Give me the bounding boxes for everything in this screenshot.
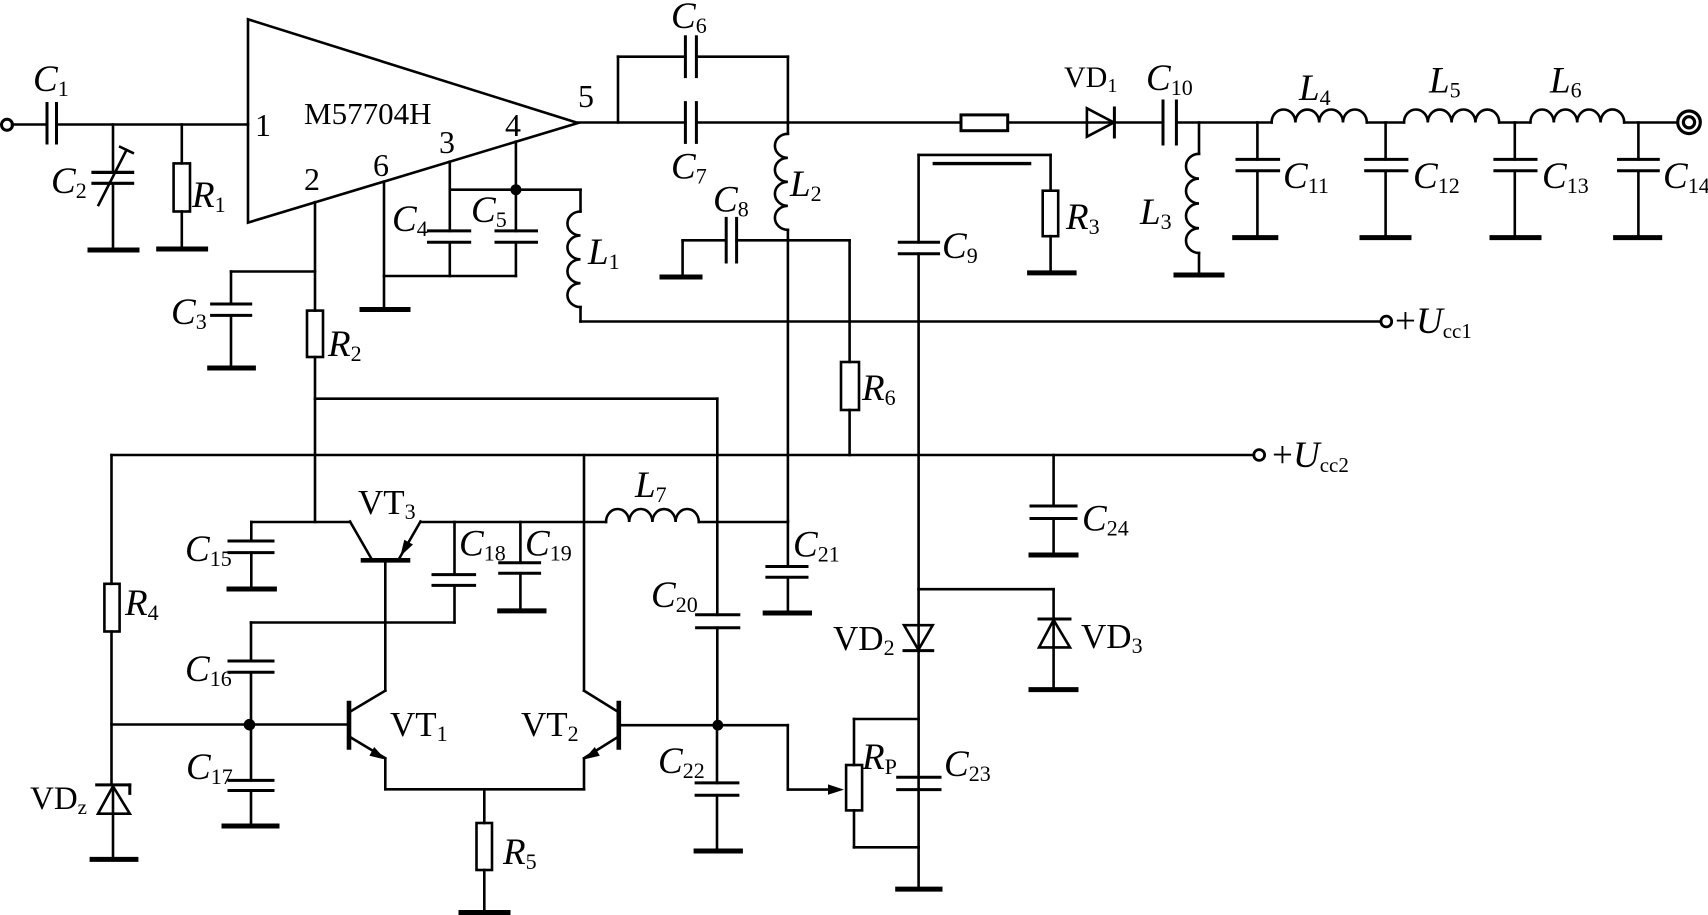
wire C6 branch right vertical (787, 57, 790, 123)
ground (C11) (1235, 235, 1276, 240)
wire emitter rail (385, 788, 584, 791)
ground (C19) (500, 608, 544, 613)
capacitor C24 (1031, 455, 1129, 555)
ground (R1) (159, 247, 206, 252)
wire C6 branch left vertical (617, 57, 620, 123)
capacitor C4 (392, 199, 470, 276)
wire base rail VT1 (112, 723, 347, 726)
transistor VT3 (350, 483, 421, 690)
capacitor C5 (471, 190, 537, 276)
resistor R6 (841, 362, 896, 455)
wire VD2/VD3 tee (919, 588, 1054, 591)
ground (VDz) (92, 857, 136, 862)
input terminal (2, 119, 13, 130)
wire coupler to C9 (917, 155, 920, 242)
resistor R5 (477, 789, 537, 912)
node (VT2 base / C20 / C22) (712, 720, 723, 731)
wire C6 branch top left (618, 55, 685, 58)
wire VT2 base to node (621, 724, 718, 727)
ground (C14) (1616, 235, 1660, 240)
ground (C13) (1492, 235, 1539, 240)
ground (R3) (1030, 270, 1075, 275)
capacitor C14 (1619, 123, 1708, 238)
capacitor C1 (33, 59, 69, 143)
svg-text:2: 2 (304, 161, 320, 197)
wire C3 to pin2 (231, 270, 315, 273)
ground (C24) (1031, 553, 1076, 558)
svg-text:5: 5 (578, 78, 594, 114)
diode VD2 (833, 589, 933, 660)
output terminal (1678, 111, 1701, 134)
wire pin3 down (448, 162, 451, 231)
ground (L3) (1176, 273, 1222, 278)
ground (C2) (90, 248, 137, 253)
capacitor C15 (185, 522, 273, 589)
node (pin4 junction) (510, 184, 521, 195)
svg-text:4: 4 (505, 107, 521, 143)
svg-text:M57704H: M57704H (304, 96, 431, 131)
inductor L1 (567, 190, 619, 322)
wire R2 bottom to C20 branch (315, 397, 717, 400)
resistor R2 (307, 311, 362, 522)
op-amp U1 M57704H triangle (248, 19, 578, 222)
capacitor C2 (variable) (51, 125, 133, 251)
ground (C21) (765, 611, 809, 616)
ground (C12) (1362, 235, 1409, 240)
wire C20 branch vertical upper (716, 399, 719, 615)
capacitor C21 (767, 521, 840, 613)
wire VD1 to C10 (1114, 121, 1163, 124)
svg-text:+: + (1395, 301, 1416, 342)
wire L4 to C12 (1367, 121, 1404, 124)
wire VT2 collector up (583, 455, 586, 690)
wire pin4 down (515, 142, 518, 231)
wire R6 top (848, 240, 851, 362)
wire L5 to C13 (1499, 121, 1530, 124)
node (C16/C17 junction) (244, 719, 256, 731)
capacitor C22 (658, 725, 738, 851)
inductor L6 (1530, 61, 1624, 123)
wire pin3/pin4 node (450, 188, 581, 191)
capacitor C16 (185, 623, 273, 725)
wire L2/C21 vertical (787, 240, 790, 521)
svg-text:3: 3 (439, 124, 455, 160)
wire C7 to box (696, 121, 961, 124)
wire coupler to R3 (1049, 155, 1052, 191)
wire VT3 emitter rail to L7 (421, 521, 607, 524)
transistor VT1 (349, 691, 448, 790)
ground (C15) (229, 587, 274, 592)
wire box to VD1 (1008, 121, 1115, 124)
terminal +Ucc1 (1381, 301, 1472, 343)
ground (C22) (696, 849, 740, 854)
inductor L7 (606, 465, 788, 522)
capacitor C10 (1146, 58, 1193, 144)
capacitor C11 (1237, 123, 1329, 238)
inductor L3 (1139, 123, 1199, 276)
wire pin2 down (314, 202, 317, 310)
ground (C23) (898, 887, 940, 892)
diode VD3 (1039, 589, 1143, 689)
wire node to Rp wiper (718, 725, 844, 795)
wire C6 branch top right (696, 55, 788, 58)
ground (C3) (210, 366, 254, 371)
inductor L2 (775, 123, 822, 241)
capacitor C13 (1495, 123, 1589, 238)
zener diode VDz (30, 781, 130, 859)
Ucc1 rail (581, 320, 1381, 323)
ground (pin 6) (362, 307, 408, 312)
svg-text:+: + (1272, 435, 1293, 476)
wire VD2 to C23 (917, 651, 920, 890)
wire C15 top rail (251, 521, 350, 524)
ground (C17) (224, 824, 277, 829)
wire C16 top rail (251, 621, 455, 624)
resistor R1 (174, 125, 226, 250)
svg-text:1: 1 (255, 107, 271, 143)
resistor R3 (1043, 191, 1100, 273)
wire C4/C5 bottoms to pin6 line (384, 275, 516, 278)
wire pin6 down to ground (383, 182, 386, 310)
capacitor C3 (171, 272, 251, 369)
wire L2 bottom to R6 (788, 239, 850, 242)
coupler bar (934, 162, 1029, 165)
wire C1 to pin1 (57, 123, 249, 126)
coupler line (919, 154, 1051, 157)
capacitor C8 (683, 180, 788, 278)
ground (C8) (662, 275, 700, 280)
capacitor C9 (899, 226, 977, 589)
capacitor C12 (1366, 123, 1460, 238)
resistor R4 (104, 583, 158, 785)
box on main line (microstrip) (961, 115, 1008, 131)
inductor L5 (1404, 61, 1499, 123)
capacitor C20 (651, 575, 739, 725)
wire apex to C7 (578, 121, 685, 124)
capacitor C7 (671, 103, 707, 189)
wire R4 branch (110, 455, 113, 584)
Ucc2 rail (112, 454, 1254, 457)
wire C10 to L4 (1176, 121, 1271, 124)
diode VD1 (1064, 61, 1117, 137)
potentiometer Rp (846, 719, 919, 847)
capacitor C18 (433, 522, 506, 623)
ground (VD3) (1031, 687, 1076, 692)
capacitor C19 (500, 522, 572, 611)
wire input to C1 (12, 123, 47, 126)
transistor VT2 (521, 691, 619, 790)
capacitor C17 (186, 725, 273, 827)
capacitor C6 (671, 0, 707, 77)
svg-text:6: 6 (373, 147, 389, 183)
capacitor C23 (898, 744, 991, 790)
terminal +Ucc2 (1254, 435, 1349, 477)
ground (R5) (461, 910, 508, 915)
wire L6 to C14 (1624, 121, 1677, 124)
inductor L4 (1272, 68, 1367, 123)
